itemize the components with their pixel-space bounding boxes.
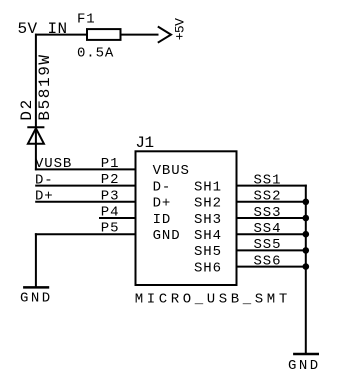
wire 5V_IN rail horizontal xyxy=(35,34,159,36)
wire SS6 net xyxy=(237,266,306,268)
junction dot SS5 xyxy=(303,247,310,254)
svg-text:B5819W: B5819W xyxy=(36,53,54,120)
svg-text:SH1: SH1 xyxy=(194,179,222,195)
svg-text:P5: P5 xyxy=(101,221,120,237)
svg-text:D-: D- xyxy=(35,172,54,188)
fuse F1 body xyxy=(87,29,121,40)
svg-text:P4: P4 xyxy=(101,205,120,221)
wire SS3 net xyxy=(237,217,306,219)
svg-text:ID: ID xyxy=(153,212,172,228)
connector J1 body xyxy=(136,151,237,285)
svg-text:J1: J1 xyxy=(135,134,153,152)
wire D- net xyxy=(35,185,135,187)
wire VUSB net xyxy=(35,168,136,170)
wire SS1 net xyxy=(237,185,307,187)
svg-text:F1: F1 xyxy=(77,12,96,28)
junction dot SS6 xyxy=(303,263,310,270)
svg-text:D-: D- xyxy=(153,179,172,195)
svg-text:P1: P1 xyxy=(101,156,120,172)
wire D+ net xyxy=(35,201,135,203)
svg-text:SH5: SH5 xyxy=(194,244,222,260)
svg-text:VUSB: VUSB xyxy=(35,156,72,172)
svg-text:SH6: SH6 xyxy=(194,260,222,276)
svg-text:SS6: SS6 xyxy=(254,253,282,269)
svg-text:SS3: SS3 xyxy=(254,205,282,221)
svg-text:GND: GND xyxy=(20,290,53,306)
svg-text:SH3: SH3 xyxy=(194,212,222,228)
wire P5 to GND vertical xyxy=(35,233,37,287)
svg-text:0.5A: 0.5A xyxy=(77,46,114,62)
diode D2 cathode bar xyxy=(27,126,44,128)
junction dot SS4 xyxy=(303,231,310,238)
svg-text:D+: D+ xyxy=(153,196,172,212)
ground symbol left bar xyxy=(23,286,49,289)
ground symbol right bar xyxy=(293,353,319,356)
svg-text:SS2: SS2 xyxy=(254,189,282,205)
svg-text:SS1: SS1 xyxy=(254,172,282,188)
svg-text:SH2: SH2 xyxy=(194,196,222,212)
svg-text:SH4: SH4 xyxy=(194,228,222,244)
wire SS4 net xyxy=(237,233,306,235)
wire SS5 net xyxy=(237,249,306,251)
svg-text:MICRO_USB_SMT: MICRO_USB_SMT xyxy=(135,292,291,308)
pin stub P4 xyxy=(99,217,136,219)
wire P5 to GND horizontal xyxy=(35,233,136,235)
svg-text:SS4: SS4 xyxy=(254,221,282,237)
svg-text:+5V: +5V xyxy=(172,18,187,40)
junction dot SS3 xyxy=(303,215,310,222)
wire vertical from 5V_IN to VUSB through D2 xyxy=(35,34,37,171)
svg-text:SS5: SS5 xyxy=(254,237,282,253)
svg-text:GND: GND xyxy=(153,228,181,244)
wire SS2 net xyxy=(237,201,306,203)
svg-text:5V_IN: 5V_IN xyxy=(18,20,68,38)
svg-text:GND: GND xyxy=(288,358,321,374)
junction dot SS2 xyxy=(303,199,310,206)
svg-text:P2: P2 xyxy=(101,172,120,188)
wire shield bus vertical xyxy=(305,185,307,354)
arrow to +5V xyxy=(158,27,171,43)
diode D2 triangle xyxy=(28,128,44,143)
svg-text:VBUS: VBUS xyxy=(153,163,190,179)
svg-text:D2: D2 xyxy=(18,98,36,120)
svg-text:P3: P3 xyxy=(101,188,120,204)
svg-text:D+: D+ xyxy=(35,189,54,205)
